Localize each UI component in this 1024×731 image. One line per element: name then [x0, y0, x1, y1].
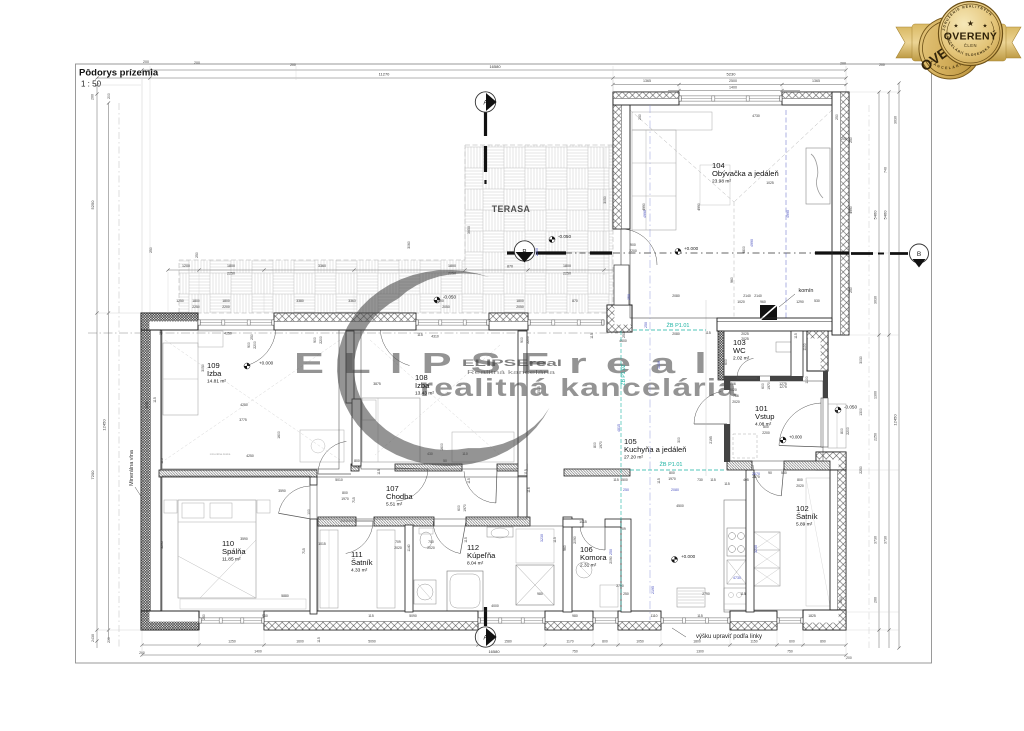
svg-text:530: 530 [781, 471, 787, 475]
wall wc bottom [724, 376, 760, 381]
svg-text:2020: 2020 [427, 546, 435, 550]
svg-text:3060: 3060 [407, 241, 411, 249]
svg-text:250: 250 [623, 488, 629, 492]
room 109 diagonal carpet lines [165, 340, 340, 460]
svg-text:115: 115 [524, 469, 528, 475]
svg-text:715: 715 [352, 497, 356, 503]
svg-text:1800: 1800 [693, 640, 701, 644]
door 108 west [396, 469, 428, 501]
interior wall chodba bottom [318, 517, 356, 526]
vstup closet dashed [733, 434, 757, 458]
svg-text:4990: 4990 [643, 210, 647, 218]
svg-text:800: 800 [593, 442, 597, 448]
svg-text:1110: 1110 [650, 614, 657, 618]
svg-text:2.02 m²: 2.02 m² [733, 356, 750, 362]
extension line wc corner vertical [705, 300, 707, 476]
svg-text:Šatník: Šatník [796, 512, 818, 521]
svg-text:★: ★ [983, 23, 988, 30]
terasa paving hatch [179, 145, 613, 313]
svg-text:16580: 16580 [489, 64, 501, 69]
svg-text:14.81 m²: 14.81 m² [207, 379, 226, 385]
room inner outline 108 [361, 330, 518, 469]
teal ZB P1.02 vertical [620, 331, 622, 611]
svg-text:730: 730 [697, 478, 703, 482]
svg-text:+0.000: +0.000 [259, 361, 274, 366]
section A marker bottom [475, 627, 495, 647]
level marker -0.050 entry east [835, 407, 841, 413]
svg-text:115: 115 [368, 614, 374, 618]
svg-text:1970: 1970 [341, 497, 349, 501]
entry step outside [828, 404, 846, 448]
svg-text:200: 200 [107, 637, 111, 643]
desk room 109 [300, 430, 344, 462]
svg-text:2250: 2250 [563, 272, 571, 276]
svg-text:3360: 3360 [318, 264, 326, 268]
svg-text:WC: WC [733, 346, 746, 355]
svg-text:980: 980 [572, 614, 578, 618]
svg-text:2140: 2140 [754, 294, 762, 298]
top dimension line 16580 [142, 69, 846, 71]
svg-text:2790: 2790 [702, 592, 710, 596]
svg-text:200: 200 [840, 62, 846, 66]
svg-text:870: 870 [572, 299, 578, 303]
room inner outline 111 [318, 526, 405, 611]
toilet room 112 [420, 532, 432, 548]
door wc [737, 358, 754, 378]
svg-text:4990: 4990 [750, 239, 754, 247]
svg-text:Komora: Komora [580, 553, 607, 562]
room inner outline vstup [730, 381, 823, 461]
svg-text:1140: 1140 [407, 544, 411, 551]
wall bottom segment 618 [618, 611, 661, 630]
door 112 [433, 521, 460, 554]
svg-text:900: 900 [247, 342, 251, 348]
desk room 108 [452, 432, 514, 462]
svg-text:250: 250 [623, 592, 629, 596]
svg-text:800: 800 [669, 471, 675, 475]
svg-text:1300: 1300 [874, 391, 878, 399]
svg-text:4500: 4500 [676, 504, 684, 508]
left dimension line inner [108, 103, 110, 640]
svg-text:3360: 3360 [348, 299, 356, 303]
room inner outline 110 [162, 476, 310, 611]
wall top segment B [274, 313, 416, 330]
room inner outline chodba [317, 477, 527, 519]
svg-text:750: 750 [787, 650, 793, 654]
svg-text:1400: 1400 [254, 650, 262, 654]
wall living room bottom [717, 318, 832, 331]
living room ceiling dashed lines [630, 110, 734, 202]
door 109 [318, 441, 346, 474]
wall wc left [718, 331, 724, 380]
left dimension line 12450 outer [96, 85, 98, 648]
svg-text:2090: 2090 [573, 536, 577, 544]
svg-text:16580: 16580 [488, 649, 500, 654]
svg-text:minerálna doska: minerálna doska [210, 452, 231, 456]
svg-text:2195: 2195 [709, 436, 713, 444]
svg-text:2200: 2200 [762, 431, 770, 435]
svg-text:1600: 1600 [440, 443, 444, 451]
svg-text:1970: 1970 [668, 477, 676, 481]
svg-text:1275: 1275 [779, 385, 787, 389]
svg-text:115: 115 [153, 397, 157, 403]
svg-text:3730: 3730 [884, 536, 888, 544]
svg-text:1800: 1800 [227, 264, 235, 268]
svg-text:+0.000: +0.000 [681, 554, 696, 559]
stove [727, 528, 746, 556]
svg-text:3050: 3050 [467, 226, 471, 234]
svg-text:1290: 1290 [796, 300, 804, 304]
svg-text:2090: 2090 [609, 556, 613, 564]
wall east exterior [830, 470, 846, 612]
svg-text:200: 200 [143, 60, 149, 64]
svg-text:1100: 1100 [803, 343, 807, 350]
svg-text:1600: 1600 [277, 431, 281, 439]
svg-text:Kuchyňa a jedáleň: Kuchyňa a jedáleň [624, 445, 687, 454]
watermark text ELIPSEreal [294, 348, 726, 380]
svg-text:2.31 m²: 2.31 m² [580, 563, 597, 569]
svg-text:715: 715 [302, 548, 306, 554]
svg-text:5230: 5230 [727, 72, 737, 77]
svg-text:2200: 2200 [222, 305, 230, 309]
blue axis line vertical 2 [785, 110, 787, 318]
svg-text:250: 250 [638, 114, 642, 120]
level marker +0.000 room 109 [244, 363, 250, 369]
wall wc right [791, 331, 803, 377]
svg-text:200: 200 [841, 137, 847, 141]
svg-text:5090: 5090 [368, 640, 376, 644]
shower room 112 [516, 565, 554, 605]
svg-text:Izba: Izba [207, 369, 222, 378]
svg-text:8.04 m²: 8.04 m² [467, 561, 484, 567]
interior wall kitchen-satnik vertical [746, 470, 754, 612]
svg-text:Spálňa: Spálňa [222, 547, 246, 556]
svg-text:3590: 3590 [240, 537, 248, 541]
svg-text:4250: 4250 [224, 332, 232, 336]
svg-text:Vstup: Vstup [755, 412, 774, 421]
wall pier at terasa corner [607, 305, 632, 332]
section B thick dash left of circle [507, 251, 516, 254]
sofa living room [632, 130, 676, 230]
svg-text:3290: 3290 [145, 401, 149, 409]
svg-text:250: 250 [849, 137, 853, 143]
interior wall 108-kitchen vertical [518, 331, 527, 476]
svg-text:200: 200 [91, 94, 95, 100]
svg-text:4730: 4730 [733, 576, 741, 580]
wall bottom-left corner mineral wool [141, 611, 199, 630]
svg-text:5460: 5460 [873, 210, 878, 220]
svg-text:600: 600 [457, 505, 461, 511]
section A marker top [475, 92, 495, 112]
svg-text:1800: 1800 [192, 299, 200, 303]
top dimension line 11270 and 5230 [97, 77, 613, 79]
wall bottom segment 730 [730, 611, 777, 630]
svg-text:115: 115 [657, 478, 661, 484]
svg-text:+0.000: +0.000 [789, 435, 803, 440]
svg-text:115: 115 [377, 469, 381, 475]
svg-text:1050: 1050 [636, 640, 644, 644]
window living room top [679, 96, 782, 101]
svg-text:4800: 4800 [742, 246, 746, 254]
low wall living room west below door [614, 265, 629, 305]
svg-text:4.08 m²: 4.08 m² [755, 422, 772, 428]
svg-text:2200: 2200 [629, 249, 637, 253]
svg-text:250: 250 [849, 287, 853, 293]
svg-text:115: 115 [794, 333, 798, 339]
svg-text:200: 200 [879, 63, 885, 67]
wall top segment C [489, 313, 528, 330]
svg-text:960: 960 [760, 300, 766, 304]
svg-text:12450: 12450 [893, 414, 898, 426]
svg-text:3050: 3050 [201, 364, 205, 372]
svg-text:3875: 3875 [373, 382, 381, 386]
svg-text:23.98 m²: 23.98 m² [712, 179, 731, 185]
svg-text:1365: 1365 [812, 79, 820, 83]
svg-text:4815: 4815 [617, 424, 621, 432]
svg-text:250: 250 [202, 614, 206, 620]
svg-text:200: 200 [846, 656, 852, 660]
interior wall 112-106 vertical [563, 517, 572, 612]
svg-text:5.89 m²: 5.89 m² [796, 522, 813, 528]
svg-text:11270: 11270 [379, 72, 391, 77]
svg-text:4990: 4990 [642, 203, 646, 211]
wall living room top-right block [782, 92, 849, 105]
svg-text:1150: 1150 [750, 640, 757, 644]
french window arc 109 [246, 331, 275, 366]
svg-text:2200: 2200 [526, 336, 530, 344]
badge overeny gold seal [141, 0, 1021, 619]
svg-text:4990: 4990 [786, 210, 790, 218]
svg-text:ČLEN: ČLEN [964, 43, 977, 48]
svg-text:7200: 7200 [90, 470, 95, 480]
terrace door bottom [478, 618, 545, 623]
wall left exterior mineral wool [141, 313, 161, 611]
interior wall 108 bottom [351, 464, 359, 471]
svg-text:1250: 1250 [176, 299, 184, 303]
svg-text:250: 250 [149, 247, 153, 253]
svg-text:530: 530 [814, 299, 820, 303]
svg-text:800: 800 [840, 428, 844, 434]
washbasin room 112 [487, 527, 513, 537]
svg-text:27.20 m²: 27.20 m² [624, 455, 643, 461]
svg-text:3730: 3730 [874, 536, 878, 544]
svg-text:115: 115 [417, 333, 423, 337]
svg-text:115: 115 [467, 478, 471, 484]
svg-text:1970: 1970 [463, 504, 467, 512]
svg-text:výšku upraviť podľa linky: výšku upraviť podľa linky [696, 634, 762, 640]
interior wall 111-112 vertical [405, 525, 413, 612]
svg-text:1020: 1020 [737, 300, 745, 304]
svg-text:Šatník: Šatník [351, 558, 373, 567]
svg-text:1825: 1825 [808, 614, 816, 618]
top dimension line 1365 2500 1365 [613, 84, 846, 86]
svg-text:1970: 1970 [599, 441, 603, 449]
chimney komin [760, 305, 777, 320]
svg-text:2080: 2080 [671, 488, 679, 492]
svg-text:2250: 2250 [192, 305, 200, 309]
svg-text:890: 890 [820, 640, 826, 644]
svg-text:5880: 5880 [281, 594, 289, 598]
nightstand room 110 [164, 500, 177, 513]
svg-text:5010: 5010 [335, 478, 343, 482]
door vstup to kitchen [694, 392, 721, 425]
svg-text:komín: komín [799, 288, 814, 294]
svg-text:B: B [917, 251, 921, 258]
window top wall 2 [416, 320, 489, 325]
svg-text:2200: 2200 [535, 248, 539, 256]
room inner outline 112 [413, 526, 563, 611]
room inner outline living room [630, 105, 832, 318]
interior wall 109-108 vertical lower [352, 399, 361, 466]
svg-text:Realitná kancelária: Realitná kancelária [467, 370, 555, 376]
svg-text:960: 960 [563, 545, 567, 551]
komora fixtures 106 [576, 562, 592, 578]
wall bottom-right corner [803, 610, 846, 630]
svg-text:1365: 1365 [643, 79, 651, 83]
svg-text:Izba: Izba [415, 381, 430, 390]
svg-text:405: 405 [743, 478, 749, 482]
kitchen cabinet X [727, 560, 746, 584]
wall bottom segment 545 [545, 611, 593, 630]
svg-text:Kúpeľňa: Kúpeľňa [467, 551, 496, 560]
interior wall 110-111 vertical [310, 477, 317, 485]
svg-text:2790: 2790 [616, 584, 624, 588]
level marker +0.000 kitchen [672, 557, 678, 563]
door 111 [346, 521, 373, 554]
kitchen sink unit [724, 588, 746, 610]
badge ribbon [896, 27, 918, 58]
watermark swoosh crescent [337, 270, 549, 466]
svg-text:700: 700 [428, 540, 434, 544]
svg-text:ŽB P1.01: ŽB P1.01 [660, 460, 683, 468]
svg-text:115: 115 [724, 482, 730, 486]
window bottom 1 [199, 618, 264, 623]
svg-text:980: 980 [537, 592, 543, 596]
svg-text:realitná kancelária: realitná kancelária [420, 374, 738, 402]
svg-text:200: 200 [194, 61, 200, 65]
svg-text:1580: 1580 [504, 640, 512, 644]
door living room west to terasa [621, 229, 657, 265]
wall living room west [613, 92, 630, 229]
wc washbasin [776, 342, 791, 352]
wall bottom segment 264-478 [264, 611, 478, 630]
svg-text:1015: 1015 [579, 520, 587, 524]
svg-text:OVERENÝ: OVERENÝ [944, 30, 997, 43]
svg-text:4.33 m²: 4.33 m² [351, 568, 368, 574]
svg-text:2195: 2195 [651, 586, 655, 594]
svg-text:4000: 4000 [491, 604, 499, 608]
svg-text:3230: 3230 [540, 534, 544, 542]
watermark text realitna kancelaria [420, 374, 738, 402]
svg-text:200: 200 [874, 597, 878, 603]
level marker -0.050 top wall [434, 297, 440, 303]
wall corner block entry south [816, 452, 846, 470]
interior wall komora right [621, 519, 631, 612]
interior wall chodba-kitchen stub [518, 476, 527, 526]
kitchen counter vertical [724, 500, 746, 612]
blue axis line vertical 1 [649, 105, 651, 620]
top dimension line 1400 [668, 90, 800, 92]
svg-text:3030: 3030 [859, 356, 863, 364]
svg-text:116: 116 [527, 487, 531, 493]
french window arc 108 [380, 331, 409, 366]
bottom dimension chain row1 [142, 644, 846, 646]
svg-text:3230: 3230 [657, 361, 661, 369]
bed in room 110 [178, 500, 256, 598]
svg-text:5250: 5250 [90, 200, 95, 210]
svg-text:250: 250 [622, 332, 626, 338]
svg-text:2250: 2250 [859, 466, 863, 474]
svg-text:2200: 2200 [253, 341, 257, 349]
svg-text:1300: 1300 [696, 650, 704, 654]
svg-text:5090: 5090 [409, 614, 417, 618]
svg-text:11.85 m²: 11.85 m² [222, 557, 241, 563]
window top wall 1 [198, 320, 274, 325]
door 110 [279, 486, 310, 513]
window bottom 3 kitchen [661, 618, 730, 623]
svg-text:600: 600 [761, 383, 765, 389]
svg-text:1015: 1015 [318, 542, 326, 546]
svg-text:1970: 1970 [767, 382, 771, 390]
svg-text:★: ★ [967, 19, 974, 28]
wardrobe satnik 102 [754, 532, 780, 586]
svg-text:3230: 3230 [754, 545, 758, 553]
svg-text:2500: 2500 [729, 79, 737, 83]
svg-text:-0.050: -0.050 [558, 234, 571, 239]
window bottom 2 [593, 618, 618, 623]
svg-text:90: 90 [768, 471, 772, 475]
svg-text:+0.000: +0.000 [684, 246, 699, 251]
svg-text:4250: 4250 [246, 454, 254, 458]
drawing frame border [76, 64, 932, 663]
svg-text:2020: 2020 [394, 546, 402, 550]
axis dash-dot line vertical right [868, 105, 870, 648]
svg-text:ŽB P1.02: ŽB P1.02 [619, 364, 627, 385]
svg-text:250: 250 [835, 114, 839, 120]
svg-text:1200: 1200 [182, 264, 190, 268]
svg-text:115: 115 [613, 478, 619, 482]
badge front circle [939, 2, 1003, 66]
svg-text:200: 200 [290, 63, 296, 67]
svg-text:2670: 2670 [752, 472, 760, 476]
room inner outline 106 [572, 527, 621, 611]
svg-text:2050: 2050 [516, 305, 524, 309]
svg-text:2430: 2430 [91, 634, 95, 642]
svg-text:Minerálna vlna: Minerálna vlna [129, 449, 135, 486]
level marker -0.050 terasa [549, 237, 555, 243]
svg-text:800: 800 [342, 491, 348, 495]
svg-text:2200: 2200 [319, 336, 323, 344]
wall living room top-left block [613, 92, 679, 105]
interior wall vstup-satnik horizontal [727, 461, 752, 470]
svg-text:900: 900 [630, 243, 636, 247]
svg-text:800: 800 [354, 459, 360, 463]
svg-text:100: 100 [307, 509, 311, 515]
svg-text:250: 250 [644, 322, 648, 328]
svg-text:1 : 50: 1 : 50 [81, 80, 102, 89]
badge back circle [141, 0, 996, 619]
washing machine room 112 [414, 580, 436, 604]
svg-text:2200: 2200 [846, 427, 850, 435]
svg-text:2140: 2140 [743, 294, 751, 298]
svg-text:115: 115 [697, 614, 703, 618]
room inner outline wc [724, 331, 791, 376]
wall entry east above door [823, 371, 828, 398]
svg-text:1800: 1800 [516, 299, 524, 303]
axis dash-dot line horizontal [88, 332, 618, 334]
svg-text:4990: 4990 [697, 203, 701, 211]
svg-text:800: 800 [602, 640, 608, 644]
